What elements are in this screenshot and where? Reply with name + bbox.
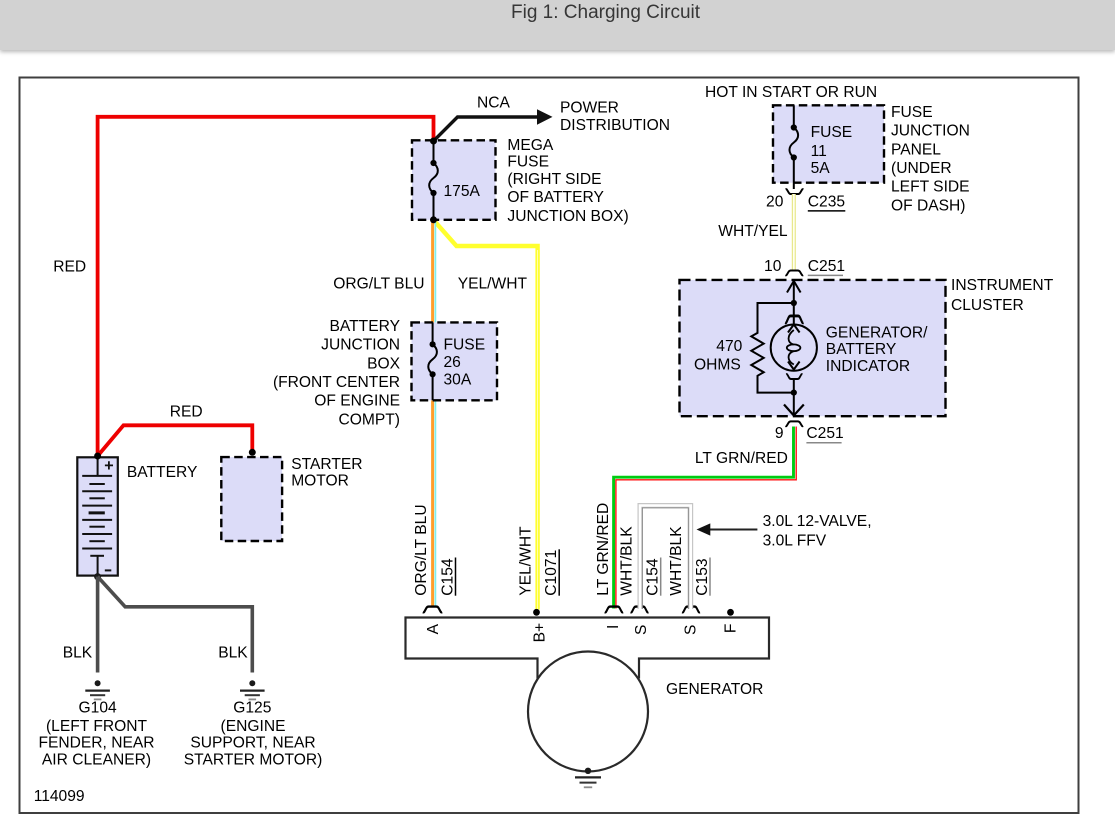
svg-text:LT GRN/RED: LT GRN/RED — [595, 503, 612, 596]
node battery negative — [94, 573, 101, 580]
svg-text:114099: 114099 — [34, 788, 85, 805]
svg-text:9: 9 — [775, 425, 784, 442]
svg-text:ORG/LT BLU: ORG/LT BLU — [413, 504, 430, 595]
wire NCA black — [434, 117, 540, 141]
svg-text:OF DASH): OF DASH) — [891, 197, 966, 214]
svg-text:A: A — [425, 623, 442, 634]
svg-text:20: 20 — [766, 193, 784, 210]
svg-text:(UNDER: (UNDER — [891, 160, 952, 177]
svg-text:G104: G104 — [79, 700, 117, 717]
wire red battery to starter motor — [98, 425, 253, 456]
fuse junction panel box — [773, 105, 884, 182]
svg-text:5A: 5A — [811, 160, 831, 177]
node terminal F — [727, 609, 734, 616]
svg-text:C153: C153 — [694, 558, 711, 595]
battery plus sign — [105, 461, 113, 469]
svg-text:DISTRIBUTION: DISTRIBUTION — [560, 117, 670, 134]
svg-text:LEFT SIDE: LEFT SIDE — [891, 179, 970, 196]
svg-text:470: 470 — [716, 338, 742, 355]
svg-text:CLUSTER: CLUSTER — [951, 297, 1024, 314]
svg-text:COMPT): COMPT) — [339, 411, 401, 428]
svg-text:B+: B+ — [531, 623, 548, 643]
svg-text:FUSE: FUSE — [507, 154, 549, 171]
svg-text:YEL/WHT: YEL/WHT — [458, 276, 528, 293]
svg-text:I: I — [605, 625, 622, 629]
svg-text:POWER: POWER — [560, 100, 619, 117]
svg-text:RED: RED — [170, 403, 203, 420]
svg-text:175A: 175A — [444, 183, 481, 200]
svg-text:PANEL: PANEL — [891, 141, 941, 158]
generator terminal strip — [406, 618, 770, 679]
indicator lamp cup bottom — [786, 374, 802, 379]
wire black battery to G104 — [96, 577, 100, 673]
node cluster top junction — [791, 300, 797, 306]
svg-text:3.0L FFV: 3.0L FFV — [763, 532, 827, 549]
entry arrow into cluster — [787, 281, 801, 293]
generator ground — [575, 768, 601, 788]
svg-text:BLK: BLK — [218, 645, 248, 662]
svg-text:C154: C154 — [644, 558, 661, 596]
battery B1 — [77, 457, 118, 575]
svg-text:INSTRUMENT: INSTRUMENT — [951, 277, 1054, 294]
svg-text:STARTER MOTOR): STARTER MOTOR) — [184, 751, 323, 768]
svg-text:YEL/WHT: YEL/WHT — [517, 526, 534, 596]
svg-text:STARTER: STARTER — [291, 456, 362, 473]
indicator lamp cup top — [785, 316, 803, 323]
svg-text:HOT IN START OR RUN: HOT IN START OR RUN — [705, 84, 877, 101]
title bar — [0, 0, 1115, 50]
ground G104 — [85, 680, 110, 699]
svg-text:WHT/BLK: WHT/BLK — [668, 526, 685, 596]
node terminal B+ — [533, 609, 540, 616]
node cluster bottom junction — [791, 390, 797, 396]
svg-text:BATTERY: BATTERY — [826, 341, 897, 358]
node mega fuse bottom junction — [430, 216, 437, 223]
svg-text:BATTERY: BATTERY — [127, 464, 198, 481]
connector cup 10 C251 — [785, 270, 803, 275]
indicator lamp circle U1 — [771, 325, 817, 371]
svg-text:JUNCTION: JUNCTION — [891, 123, 970, 140]
svg-text:FUSE: FUSE — [811, 124, 853, 141]
svg-text:OF ENGINE: OF ENGINE — [314, 393, 400, 410]
svg-text:BATTERY: BATTERY — [330, 318, 401, 335]
indicator lamp arrow bottom — [788, 362, 800, 370]
svg-text:FUSE: FUSE — [444, 337, 486, 354]
fuse element FUSE 11 — [793, 105, 795, 127]
wire LT GRN/RED red stripe — [616, 427, 796, 609]
svg-text:RED: RED — [53, 259, 86, 276]
svg-text:WHT/YEL: WHT/YEL — [718, 223, 788, 240]
jumper wire WHT/BLK (3.0L) — [640, 506, 691, 610]
3.0L callout arrow — [709, 529, 757, 531]
node battery positive — [94, 453, 101, 460]
svg-text:WHT/BLK: WHT/BLK — [619, 526, 636, 596]
svg-text:C154: C154 — [439, 558, 456, 596]
svg-text:F: F — [722, 624, 739, 634]
svg-text:NCA: NCA — [477, 94, 511, 111]
starter motor M1 — [221, 457, 282, 541]
svg-text:11: 11 — [811, 143, 827, 160]
wire black battery to G125 — [98, 577, 253, 673]
wire red battery loop — [98, 117, 434, 456]
arrowhead power distribution — [537, 109, 553, 125]
node starter motor terminal — [249, 449, 256, 456]
svg-text:G125: G125 — [233, 700, 271, 717]
svg-text:JUNCTION: JUNCTION — [321, 337, 400, 354]
svg-text:10: 10 — [764, 258, 782, 275]
svg-text:INDICATOR: INDICATOR — [826, 358, 910, 375]
connector cup terminal S2 — [682, 607, 700, 613]
svg-text:BOX: BOX — [367, 355, 401, 372]
connector cup terminal A — [423, 607, 442, 613]
instrument cluster box — [680, 280, 946, 416]
connector cup terminal I — [605, 607, 623, 613]
svg-text:MOTOR: MOTOR — [291, 473, 349, 490]
exit arrow from cluster — [793, 393, 795, 415]
connector cup C235 — [786, 189, 804, 194]
svg-text:BLK: BLK — [63, 645, 93, 662]
wire LT GRN/RED green — [614, 427, 794, 609]
svg-text:S: S — [682, 625, 699, 635]
svg-text:OHMS: OHMS — [694, 357, 741, 374]
wire orange ORG/LT BLU lower — [431, 400, 434, 606]
svg-text:(LEFT FRONT: (LEFT FRONT — [46, 718, 148, 735]
wire orange ORG/LT BLU upper — [431, 220, 434, 322]
svg-text:MEGA: MEGA — [507, 137, 554, 154]
svg-text:C251: C251 — [806, 425, 843, 442]
ground G125 — [240, 680, 265, 699]
svg-text:(FRONT CENTER: (FRONT CENTER — [273, 374, 400, 391]
resistor 470 OHMS — [751, 303, 794, 393]
svg-text:AIR CLEANER): AIR CLEANER) — [42, 751, 151, 768]
wire WHT/YEL — [792, 194, 796, 270]
svg-text:30A: 30A — [444, 372, 472, 389]
svg-text:OF BATTERY: OF BATTERY — [507, 189, 604, 206]
generator body circle — [528, 652, 648, 772]
connector cup 9 C251 — [785, 421, 803, 426]
battery minus sign — [105, 569, 112, 571]
fuse element FUSE 26 — [432, 322, 434, 344]
svg-text:26: 26 — [444, 354, 461, 371]
mega fuse box — [412, 140, 496, 220]
svg-text:ORG/LT BLU: ORG/LT BLU — [333, 276, 424, 293]
svg-text:LT GRN/RED: LT GRN/RED — [695, 450, 788, 467]
svg-text:GENERATOR/: GENERATOR/ — [826, 324, 928, 341]
svg-text:(RIGHT SIDE: (RIGHT SIDE — [507, 171, 601, 188]
node mega fuse top junction — [430, 138, 437, 145]
svg-text:JUNCTION BOX): JUNCTION BOX) — [507, 208, 628, 225]
indicator lamp filament — [789, 330, 794, 345]
svg-text:GENERATOR: GENERATOR — [666, 681, 763, 698]
battery plates — [82, 476, 112, 576]
svg-text:3.0L 12-VALVE,: 3.0L 12-VALVE, — [763, 513, 872, 530]
mega fuse element 175A — [433, 141, 435, 163]
svg-text:S: S — [633, 625, 650, 635]
wire yellow YEL/WHT — [434, 220, 538, 610]
svg-text:FUSE: FUSE — [891, 104, 933, 121]
svg-text:C251: C251 — [808, 258, 845, 275]
indicator lamp arrow top — [788, 325, 800, 333]
svg-text:(ENGINE: (ENGINE — [221, 718, 286, 735]
svg-text:C235: C235 — [808, 193, 846, 210]
svg-text:SUPPORT, NEAR: SUPPORT, NEAR — [190, 735, 315, 752]
svg-text:C1071: C1071 — [543, 550, 560, 596]
svg-text:FENDER, NEAR: FENDER, NEAR — [38, 735, 154, 752]
battery junction box fuse box — [412, 322, 498, 400]
connector cup terminal S1 — [631, 607, 649, 613]
